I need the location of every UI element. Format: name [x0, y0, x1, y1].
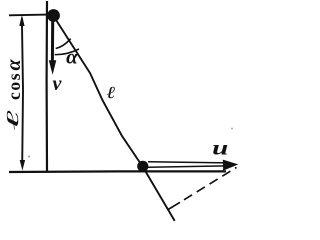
- svg-text:v: v: [53, 73, 63, 95]
- angle arc inner: [56, 39, 71, 49]
- dimension arrowhead up: [19, 15, 24, 26]
- dimension line l cos a: [22, 19, 23, 165]
- svg-text:cos: cos: [4, 72, 24, 100]
- top reference line: [9, 14, 48, 17]
- svg-text:α: α: [3, 58, 25, 70]
- velocity u arrow outline bottom: [148, 166, 226, 167]
- svg-text:ℓ: ℓ: [106, 84, 115, 103]
- velocity u arrowhead: [223, 160, 239, 171]
- label u: [212, 138, 228, 160]
- dashed construction line first solid dash: [167, 202, 180, 210]
- rod l: [54, 16, 175, 221]
- svg-text:α: α: [66, 44, 78, 68]
- label l (rod): [106, 84, 115, 103]
- dimension arrowhead down: [20, 160, 25, 171]
- velocity u arrow outline top: [148, 162, 226, 163]
- angle arc outer: [55, 49, 79, 55]
- floor (horizontal line): [9, 170, 226, 173]
- upper mass dot: [47, 9, 60, 22]
- speckle: [231, 128, 233, 130]
- label l cos alpha (rotated): [3, 58, 25, 130]
- svg-text:u: u: [212, 138, 228, 160]
- dashed construction line: [184, 167, 237, 199]
- wall (vertical line): [45, 1, 48, 172]
- svg-text:ℓ: ℓ: [3, 110, 22, 131]
- speckle: [28, 156, 30, 158]
- velocity v arrow: [51, 20, 54, 62]
- lower mass dot: [137, 161, 148, 172]
